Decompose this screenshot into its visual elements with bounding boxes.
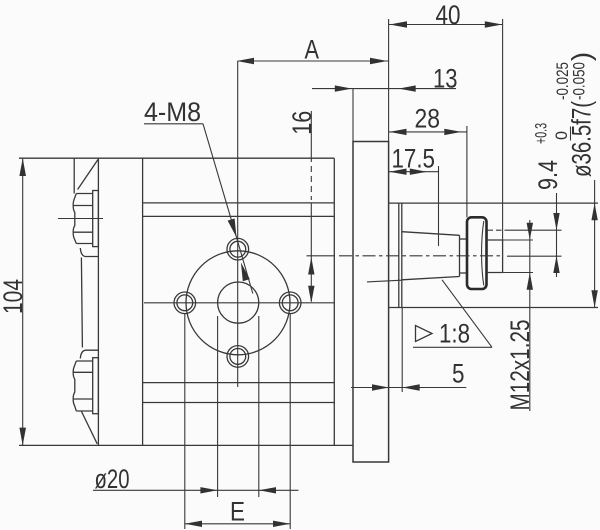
svg-text:17.5: 17.5: [392, 143, 436, 173]
svg-text:): ): [567, 52, 597, 61]
svg-text:9.4: 9.4: [533, 160, 563, 190]
svg-text:1:8: 1:8: [439, 319, 470, 349]
svg-text:-0.050: -0.050: [570, 62, 589, 100]
svg-text:M12x1.25: M12x1.25: [505, 320, 535, 411]
svg-text:28: 28: [415, 104, 441, 134]
svg-text:40: 40: [436, 0, 461, 30]
svg-text:16: 16: [287, 111, 317, 135]
svg-text:ø36.5f7(: ø36.5f7(: [567, 101, 597, 177]
svg-text:5: 5: [452, 359, 465, 389]
svg-text:+0.3: +0.3: [532, 123, 551, 144]
svg-text:ø20: ø20: [95, 464, 130, 494]
svg-text:13: 13: [433, 63, 458, 93]
svg-text:4-M8: 4-M8: [144, 97, 201, 127]
svg-text:E: E: [230, 497, 245, 527]
svg-text:A: A: [305, 35, 320, 65]
svg-text:104: 104: [0, 279, 28, 314]
